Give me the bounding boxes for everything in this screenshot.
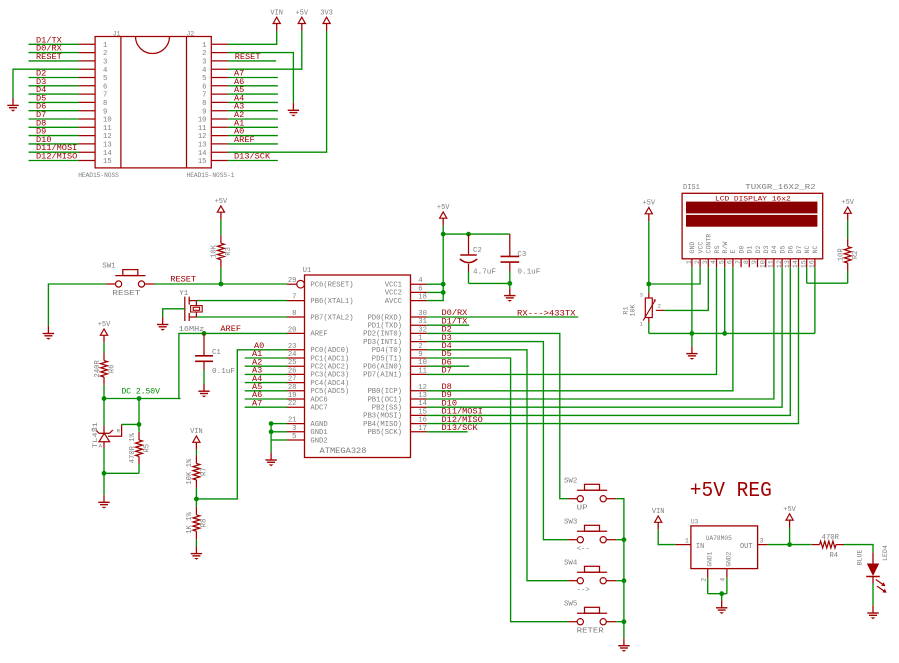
svg-text:16: 16 xyxy=(418,417,427,425)
wire net A6 at U1 xyxy=(245,390,287,400)
wire net D5 at J1 pin 8 xyxy=(29,93,79,103)
svg-text:PC5(ADC5): PC5(ADC5) xyxy=(310,388,349,396)
ground at C3 xyxy=(504,288,515,302)
svg-text:15: 15 xyxy=(103,158,112,166)
svg-text:PD1(TXD): PD1(TXD) xyxy=(367,323,402,331)
svg-text:A: A xyxy=(99,443,103,450)
svg-text:R5: R5 xyxy=(143,444,151,453)
wire net D6 xyxy=(427,357,469,367)
svg-text:ATMEGA328: ATMEGA328 xyxy=(320,446,367,456)
svg-text:14: 14 xyxy=(198,150,207,158)
svg-text:D2: D2 xyxy=(755,246,762,254)
svg-text:HEAD15-NOSS: HEAD15-NOSS xyxy=(78,172,119,179)
wire net D1/TX at J1 pin 1 xyxy=(29,35,79,45)
wire switch common rail to ground xyxy=(616,499,626,639)
svg-text:VCC1: VCC1 xyxy=(385,282,402,290)
svg-text:D7: D7 xyxy=(796,246,803,254)
power +5V above U1 VCC xyxy=(437,204,450,226)
svg-text:4: 4 xyxy=(103,67,107,75)
ground at Y1 xyxy=(157,317,168,331)
svg-text:D13/SCK: D13/SCK xyxy=(234,152,271,162)
svg-text:R3: R3 xyxy=(225,247,233,256)
wire net A7 at U1 xyxy=(245,398,287,408)
svg-text:R7: R7 xyxy=(201,467,209,476)
power VIN (top) xyxy=(270,9,283,31)
svg-text:A7: A7 xyxy=(252,398,262,408)
svg-text:PC6(RESET): PC6(RESET) xyxy=(310,282,353,290)
wire net D2 at J1 pin 5 xyxy=(29,69,79,79)
switch SW1 RESET xyxy=(102,263,154,298)
svg-text:3: 3 xyxy=(292,425,296,433)
power +5V above R2 xyxy=(841,199,854,221)
wire caps bottoms to ground xyxy=(469,281,513,288)
ground at U1 GND xyxy=(265,453,276,467)
svg-text:J2: J2 xyxy=(187,30,195,37)
svg-text:CONTR: CONTR xyxy=(706,234,713,254)
svg-text:U1: U1 xyxy=(303,267,311,275)
wire LED to ground xyxy=(872,584,874,606)
svg-text:27: 27 xyxy=(288,376,297,384)
svg-text:LCD DISPLAY 16x2: LCD DISPLAY 16x2 xyxy=(715,195,791,202)
J1 pin stubs xyxy=(79,44,96,160)
svg-text:8: 8 xyxy=(292,310,296,318)
resistor R3 10K xyxy=(211,220,234,284)
svg-text:4: 4 xyxy=(418,277,422,285)
svg-text:VCC2: VCC2 xyxy=(385,290,402,298)
svg-text:D4: D4 xyxy=(771,246,778,254)
svg-text:4: 4 xyxy=(202,67,206,75)
svg-text:R2: R2 xyxy=(852,250,860,259)
svg-text:LED4: LED4 xyxy=(882,545,889,561)
svg-text:30: 30 xyxy=(418,310,427,318)
wire divider node to A0 xyxy=(194,497,199,507)
svg-text:R6: R6 xyxy=(108,364,116,373)
svg-text:32: 32 xyxy=(418,326,427,334)
svg-text:+5V: +5V xyxy=(783,506,796,514)
wire net A2 at U1 xyxy=(245,357,287,367)
wire net RESET at J2 pin 3 xyxy=(228,52,276,62)
svg-text:TUXGR_16X2_R2: TUXGR_16X2_R2 xyxy=(745,184,815,192)
ground below LCD xyxy=(686,346,697,360)
ground below TL431 xyxy=(98,495,109,509)
svg-text:U3: U3 xyxy=(691,518,699,525)
svg-text:SW5: SW5 xyxy=(564,600,577,608)
U1 left pins with numbers and names xyxy=(287,277,354,445)
wire U3 GND pins to ground xyxy=(700,569,727,601)
svg-text:1: 1 xyxy=(418,335,422,343)
wire net A4 at U1 xyxy=(245,374,287,384)
svg-text:2: 2 xyxy=(700,578,707,582)
svg-text:PD4(T0): PD4(T0) xyxy=(372,347,402,355)
wire J2 pin 2 to ground xyxy=(228,53,294,103)
svg-text:PC2(ADC2): PC2(ADC2) xyxy=(310,364,349,372)
svg-text:9: 9 xyxy=(103,108,107,116)
svg-text:8: 8 xyxy=(103,100,107,108)
svg-text:-->: --> xyxy=(577,587,591,595)
svg-text:25: 25 xyxy=(288,359,297,367)
svg-text:10R: 10R xyxy=(838,248,846,262)
wire net D4 at J1 pin 7 xyxy=(29,85,79,95)
svg-text:BLUE: BLUE xyxy=(857,550,864,566)
svg-text:29: 29 xyxy=(288,277,297,285)
svg-text:PD5(T1): PD5(T1) xyxy=(372,355,402,363)
wire J1 pin 4 to ground xyxy=(13,69,79,98)
svg-text:+5V: +5V xyxy=(642,200,655,208)
svg-text:0.1uF: 0.1uF xyxy=(517,269,540,277)
svg-text:14: 14 xyxy=(103,150,112,158)
svg-text:OUT: OUT xyxy=(740,543,753,551)
svg-text:AREF: AREF xyxy=(220,324,241,334)
svg-text:15: 15 xyxy=(198,158,207,166)
svg-text:470R 1%: 470R 1% xyxy=(129,432,137,463)
svg-text:11: 11 xyxy=(418,367,427,375)
resistor R5 470R 1% xyxy=(129,432,152,474)
wire net A0 at J2 pin 12 xyxy=(228,127,278,137)
svg-text:PB1(OC1): PB1(OC1) xyxy=(367,396,402,404)
svg-text:SW3: SW3 xyxy=(564,518,577,526)
wire R4 to LED xyxy=(844,545,873,553)
svg-text:10: 10 xyxy=(418,359,427,367)
wire net A4 at J2 pin 8 xyxy=(228,93,278,103)
svg-text:11: 11 xyxy=(198,125,207,133)
ground at J1 pin 4 xyxy=(7,98,18,112)
svg-text:14: 14 xyxy=(418,400,427,408)
LCD pin stubs xyxy=(692,259,815,267)
regulator U3 UA78M05 body xyxy=(691,518,758,568)
wire R2 to LCD pin 15 xyxy=(807,267,848,283)
capacitor C3 0.1uF xyxy=(501,234,541,283)
svg-text:RETER: RETER xyxy=(577,628,605,636)
svg-text:1: 1 xyxy=(685,537,689,544)
svg-text:R: R xyxy=(117,427,121,434)
wire net D7 at J1 pin 10 xyxy=(29,110,79,120)
svg-text:4: 4 xyxy=(720,578,727,582)
svg-text:PC4(ADC4): PC4(ADC4) xyxy=(310,380,349,388)
svg-text:2: 2 xyxy=(103,50,107,58)
svg-text:3: 3 xyxy=(760,537,764,544)
svg-text:ADC7: ADC7 xyxy=(310,405,327,413)
wire J2 pin 4 to +5V xyxy=(228,31,302,69)
wire R5 bottom to TL431 anode and ground xyxy=(102,471,139,495)
ground at SW1 xyxy=(43,326,54,340)
wire net D2 to switch xyxy=(427,325,568,499)
svg-text:12: 12 xyxy=(103,133,112,141)
wire net A3 at J2 pin 9 xyxy=(228,102,278,112)
svg-text:PB4(MISO): PB4(MISO) xyxy=(363,421,402,429)
svg-text:2: 2 xyxy=(202,50,206,58)
svg-text:IN: IN xyxy=(696,543,704,551)
J2 pin stubs xyxy=(211,44,228,160)
resistor R7 10K 1% xyxy=(186,450,209,499)
svg-text:GND2: GND2 xyxy=(310,437,327,445)
J2 pin numbers 1-15 xyxy=(198,42,207,166)
svg-text:RESET: RESET xyxy=(112,290,141,298)
svg-text:7: 7 xyxy=(103,92,107,100)
svg-text:GND2: GND2 xyxy=(726,551,733,566)
wire U1 AGND/GND1/GND2 to ground xyxy=(269,421,287,452)
transistor/shunt-ref U2 TL431 xyxy=(91,399,120,474)
wire net D7 to LCD pin 4 xyxy=(427,267,717,375)
capacitor C1 0.1uF xyxy=(195,333,235,383)
svg-text:18: 18 xyxy=(418,294,427,302)
wire net A3 at U1 xyxy=(245,366,287,376)
svg-text:AREF: AREF xyxy=(234,135,255,145)
svg-text:PD3(INT1): PD3(INT1) xyxy=(363,339,402,347)
wire net D12/MISO to LCD pin 14 xyxy=(427,267,799,425)
wire net D10 at J1 pin 13 xyxy=(29,135,79,145)
ground below LED xyxy=(867,606,878,620)
svg-text:R/W: R/W xyxy=(722,242,729,254)
svg-text:AREF: AREF xyxy=(310,331,327,339)
svg-text:D6: D6 xyxy=(788,246,795,254)
svg-text:RX--->433TX: RX--->433TX xyxy=(517,308,576,318)
wire net D6 at J1 pin 9 xyxy=(29,102,79,112)
svg-text:10: 10 xyxy=(103,117,112,125)
svg-text:3: 3 xyxy=(103,59,107,67)
svg-text:5: 5 xyxy=(292,433,296,441)
svg-text:10K: 10K xyxy=(211,244,219,258)
crystal Y1 16MHz xyxy=(179,290,205,334)
svg-text:SW2: SW2 xyxy=(564,477,577,485)
svg-text:31: 31 xyxy=(418,318,427,326)
svg-text:+5V: +5V xyxy=(98,321,111,329)
switch SW3 <-- xyxy=(564,518,616,553)
svg-text:8: 8 xyxy=(202,100,206,108)
wire net D3 to switch xyxy=(427,333,568,540)
svg-text:HEAD15-NOSS-1: HEAD15-NOSS-1 xyxy=(187,172,235,179)
power +5V above R6 xyxy=(98,321,111,343)
svg-text:GND1: GND1 xyxy=(706,551,713,566)
wire net A1 at J2 pin 11 xyxy=(228,118,278,128)
resistor R8 1K 1% xyxy=(186,507,209,546)
svg-text:22: 22 xyxy=(288,400,297,408)
ground below U3 xyxy=(716,600,727,614)
power 3V3 (top) xyxy=(320,9,333,31)
op-amp/mcu U1 ATMEGA328 body xyxy=(303,267,411,458)
wire +5V to LCD VCC (pin 2) xyxy=(646,221,700,286)
connector J1 (HEAD15-NOSS) body xyxy=(78,30,235,179)
wire net RESET to U1 pin 29 xyxy=(155,274,288,286)
potentiometer R1 10K (trimmer) xyxy=(623,284,665,333)
svg-text:C1: C1 xyxy=(212,349,221,357)
wire net D1/TX xyxy=(427,316,469,326)
svg-text:RESET: RESET xyxy=(170,274,196,284)
LED LED4 BLUE xyxy=(857,545,890,593)
wire net A0 at U1 xyxy=(196,341,287,499)
svg-text:4.7uF: 4.7uF xyxy=(473,269,496,277)
svg-text:6: 6 xyxy=(202,83,206,91)
svg-text:15: 15 xyxy=(418,408,427,416)
wire U3 OUT (pin 3) to +5V and R4 xyxy=(758,537,812,547)
svg-text:RS: RS xyxy=(714,246,721,254)
wire net D8 to LCD pin 6 xyxy=(427,267,733,392)
svg-text:9: 9 xyxy=(418,351,422,359)
svg-text:C2: C2 xyxy=(473,247,482,255)
wire SW1 left to ground xyxy=(48,284,106,326)
svg-text:26: 26 xyxy=(288,367,297,375)
svg-text:2: 2 xyxy=(658,302,662,309)
svg-text:12: 12 xyxy=(198,133,207,141)
wire net D5 to switch xyxy=(427,349,568,622)
wire net D13/SCK xyxy=(427,423,479,433)
wire net RESET at J1 pin 3 xyxy=(29,52,79,62)
power VIN above R7 xyxy=(190,428,203,450)
svg-text:7: 7 xyxy=(202,92,206,100)
svg-text:7: 7 xyxy=(292,294,296,302)
svg-text:3: 3 xyxy=(202,59,206,67)
svg-text:3: 3 xyxy=(640,292,644,299)
svg-text:19: 19 xyxy=(288,392,297,400)
svg-text:ADC6: ADC6 xyxy=(310,396,327,404)
svg-text:SW4: SW4 xyxy=(564,559,578,567)
svg-text:PD2(INT0): PD2(INT0) xyxy=(363,331,402,339)
svg-text:PB2(SS): PB2(SS) xyxy=(372,405,402,413)
svg-text:6: 6 xyxy=(418,285,422,293)
svg-text:PB3(MOSI): PB3(MOSI) xyxy=(363,413,402,421)
wire VIN to U3 IN (pin 1) xyxy=(658,530,691,545)
power +5V at U3 output xyxy=(783,506,796,545)
svg-text:6: 6 xyxy=(103,83,107,91)
switch SW2 UP xyxy=(564,477,616,512)
ground below switches xyxy=(618,638,629,652)
svg-text:PD0(RXD): PD0(RXD) xyxy=(367,314,402,322)
svg-text:D3: D3 xyxy=(763,246,770,254)
svg-text:13: 13 xyxy=(198,142,207,150)
svg-text:UP: UP xyxy=(577,505,589,513)
svg-text:D12/MISO: D12/MISO xyxy=(36,152,77,162)
svg-text:DIS1: DIS1 xyxy=(683,184,700,192)
wire net D9 at J1 pin 12 xyxy=(29,127,79,137)
power +5V left of LCD xyxy=(642,200,655,222)
wire net D4 to switch xyxy=(427,341,568,581)
power +5V above R3 xyxy=(215,198,228,220)
svg-text:UA78M05: UA78M05 xyxy=(706,535,732,542)
svg-text:VCC: VCC xyxy=(697,242,704,254)
wire net D0/RX at J1 pin 2 xyxy=(29,44,79,54)
wire net D8 at J1 pin 11 xyxy=(29,118,79,128)
svg-text:C3: C3 xyxy=(517,251,526,259)
svg-text:SW1: SW1 xyxy=(102,263,116,271)
svg-text:+5V: +5V xyxy=(437,204,450,212)
svg-text:NC: NC xyxy=(804,246,811,254)
svg-text:11: 11 xyxy=(103,125,112,133)
svg-text:10K 1%: 10K 1% xyxy=(186,458,194,485)
svg-text:240R: 240R xyxy=(94,359,102,377)
svg-text:5: 5 xyxy=(103,75,107,83)
svg-text:PB7(XTAL2): PB7(XTAL2) xyxy=(310,314,353,322)
wire net D3 at J1 pin 6 xyxy=(29,77,79,87)
svg-text:21: 21 xyxy=(288,417,297,425)
wire R1 wiper to LCD CONTR (pin 3) xyxy=(665,267,709,310)
wire net A2 at J2 pin 10 xyxy=(228,110,278,120)
label +5V REG xyxy=(690,480,772,503)
svg-text:PC3(ADC3): PC3(ADC3) xyxy=(310,372,349,380)
svg-text:<--: <-- xyxy=(577,546,590,554)
wire net A6 at J2 pin 6 xyxy=(228,77,278,87)
svg-text:0.1uF: 0.1uF xyxy=(212,368,235,376)
wire J2 pin 14 to 3V3 xyxy=(228,31,327,152)
svg-text:D1: D1 xyxy=(747,246,754,254)
U1 right pins with numbers and names xyxy=(363,277,427,437)
wire net D10 to LCD pin 12 xyxy=(427,267,782,408)
svg-text:R4: R4 xyxy=(829,552,838,560)
svg-text:D7: D7 xyxy=(442,366,452,376)
wire net D11/MOSI to LCD pin 13 xyxy=(427,267,790,416)
wire U1 XTAL1/XTAL2 to Y1 xyxy=(196,301,287,317)
LCD pin names (vertical) xyxy=(689,234,819,254)
wire Y1 to ground xyxy=(163,309,185,317)
switch SW5 RETER xyxy=(564,600,616,635)
svg-text:2: 2 xyxy=(418,343,422,351)
svg-text:E: E xyxy=(730,250,737,254)
wire net AREF at J2 pin 13 xyxy=(228,135,278,145)
J1 pin numbers 1-15 xyxy=(103,42,112,166)
svg-text:24: 24 xyxy=(288,351,297,359)
svg-text:13: 13 xyxy=(103,142,112,150)
svg-text:PD6(AIN0): PD6(AIN0) xyxy=(363,364,402,372)
svg-text:AGND: AGND xyxy=(310,421,327,429)
svg-text:RESET: RESET xyxy=(235,52,261,62)
svg-text:23: 23 xyxy=(288,343,297,351)
svg-text:R8: R8 xyxy=(201,519,209,528)
svg-text:PD7(AIN1): PD7(AIN1) xyxy=(363,372,402,380)
power +5V (top) xyxy=(295,9,308,31)
ground below R8 xyxy=(191,546,202,560)
ground at C1 xyxy=(198,384,209,398)
svg-text:20: 20 xyxy=(288,326,297,334)
svg-text:C: C xyxy=(91,426,95,433)
wire net A5 at J2 pin 7 xyxy=(228,85,278,95)
resistor R2 10R xyxy=(838,221,861,284)
svg-text:PB0(ICP): PB0(ICP) xyxy=(367,388,402,396)
wire net D11/MOSI at J1 pin 14 xyxy=(29,143,79,153)
svg-text:J1: J1 xyxy=(113,30,121,37)
svg-text:Y1: Y1 xyxy=(179,290,188,298)
svg-text:+5V: +5V xyxy=(215,198,228,206)
wire net D12/MISO at J1 pin 15 xyxy=(29,152,79,162)
ground at J2 pin 2 xyxy=(288,103,299,117)
wire net D9 to LCD pin 11 xyxy=(427,267,774,400)
svg-text:+5V REG: +5V REG xyxy=(690,480,772,503)
wire net DC 2.50V node xyxy=(102,388,181,401)
capacitor C2 4.7uF (polarized) xyxy=(460,234,496,283)
wire net A7 at J2 pin 5 xyxy=(228,69,278,79)
display DIS1 TUXGR_16X2_R2 body xyxy=(682,184,823,259)
svg-text:D5: D5 xyxy=(779,246,786,254)
svg-text:PC1(ADC1): PC1(ADC1) xyxy=(310,355,349,363)
svg-text:PB5(SCK): PB5(SCK) xyxy=(367,429,402,437)
wire net A1 at U1 xyxy=(245,349,287,359)
svg-text:17: 17 xyxy=(418,425,427,433)
svg-text:13: 13 xyxy=(418,392,427,400)
svg-text:DC 2.50V: DC 2.50V xyxy=(122,388,161,397)
svg-text:D0: D0 xyxy=(738,246,745,254)
wire net +5V to VCC1/VCC2/AVCC and caps xyxy=(427,226,510,301)
svg-text:1: 1 xyxy=(103,42,107,50)
svg-text:+5V: +5V xyxy=(295,9,308,17)
power VIN at U3 xyxy=(652,508,665,530)
svg-text:5: 5 xyxy=(202,75,206,83)
svg-text:1: 1 xyxy=(202,42,206,50)
svg-text:470R: 470R xyxy=(822,534,840,542)
svg-text:9: 9 xyxy=(202,108,206,116)
svg-text:NC: NC xyxy=(812,246,819,254)
svg-text:12: 12 xyxy=(418,384,427,392)
wire net AREF xyxy=(179,324,287,399)
wire J2 pin 1 to VIN xyxy=(228,31,277,44)
svg-text:GND: GND xyxy=(689,242,696,254)
LCD pin numbers 1-16 (vertical) xyxy=(686,260,816,268)
